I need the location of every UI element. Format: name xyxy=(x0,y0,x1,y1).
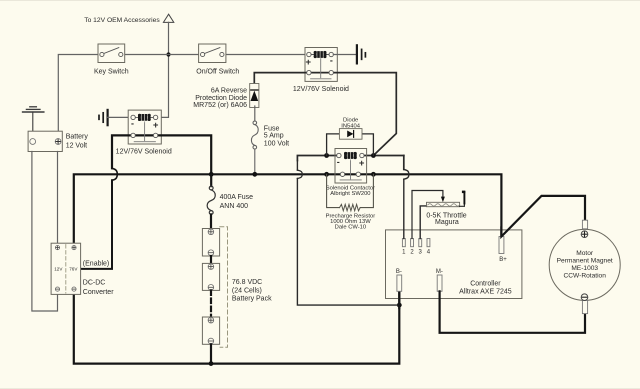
potentiometer RV1 0-5K throttle xyxy=(426,202,466,226)
wire: dashed series link cell2-cell3 xyxy=(210,290,212,317)
svg-text:-: - xyxy=(337,157,340,167)
svg-text:12V: 12V xyxy=(54,267,63,272)
svg-text:M-: M- xyxy=(436,269,443,275)
controller U1 Alltrax AXE 7245 xyxy=(386,230,522,299)
wire: B+ to motor + (diagonal, over, down) xyxy=(501,196,585,237)
svg-text:400A Fuse: 400A Fuse xyxy=(220,194,254,201)
battery pack cell 1 xyxy=(202,229,219,257)
wire: key switch to on/off switch xyxy=(125,54,199,56)
diode D2 IN5404 freewheel xyxy=(327,118,374,156)
ground right of top solenoid xyxy=(333,54,357,56)
DC-DC converter U2 xyxy=(51,243,114,296)
svg-text:12 Volt: 12 Volt xyxy=(66,142,87,149)
diode D1 6A reverse protection xyxy=(193,84,259,110)
node: B- / coil return junction xyxy=(397,303,402,308)
net symbol triangle xyxy=(163,14,173,22)
svg-text:76.8 VDC: 76.8 VDC xyxy=(232,279,262,286)
svg-text:-: - xyxy=(330,56,333,66)
svg-text:+: + xyxy=(359,158,365,169)
svg-text:+: + xyxy=(306,57,312,68)
svg-text:Converter: Converter xyxy=(83,289,114,296)
svg-text:Key Switch: Key Switch xyxy=(94,69,129,76)
wire: on/off switch to 12V/76V top solenoid coil xyxy=(226,54,309,56)
battery pack dashed bracket xyxy=(220,227,228,348)
svg-text:CCW-Rotation: CCW-Rotation xyxy=(564,272,607,279)
wire: contactor coil - return down to B- node xyxy=(296,161,298,171)
svg-text:Battery Pack: Battery Pack xyxy=(232,295,272,302)
node: bus/5A fuse junction xyxy=(252,172,257,177)
svg-text:Permanent Magnet: Permanent Magnet xyxy=(557,257,613,264)
svg-text:6A Reverse: 6A Reverse xyxy=(211,88,247,95)
wire: coil row to controller pin 1 (with hop over bus) xyxy=(403,156,405,170)
wire: throttle high end with grip bar xyxy=(460,203,465,206)
node: battery pack / bottom bus xyxy=(209,361,214,366)
wire: 12V battery + up to key switch, y54.5 xyxy=(58,55,98,132)
svg-text:B-: B- xyxy=(396,269,402,275)
wire: diode to 5A fuse xyxy=(254,106,256,121)
node: bus/400A fuse junction xyxy=(209,172,214,177)
wire: bottom negative bus y363.6 xyxy=(74,291,400,363)
svg-text:100 Volt: 100 Volt xyxy=(264,141,289,148)
wire: pin 3 to throttle low end xyxy=(420,206,426,239)
svg-text:(24 Cells): (24 Cells) xyxy=(232,287,262,294)
svg-text:Magura: Magura xyxy=(435,219,459,226)
svg-text:On/Off Switch: On/Off Switch xyxy=(196,69,239,76)
svg-text:IN5404: IN5404 xyxy=(341,124,360,130)
svg-text:Alltrax AXE 7245: Alltrax AXE 7245 xyxy=(459,288,512,295)
battery B1 12 Volt xyxy=(28,131,88,151)
battery pack cell 3 xyxy=(202,317,219,344)
wire: cell3 to bottom bus xyxy=(210,344,212,363)
wire hop: enable wire over bus xyxy=(112,168,117,180)
solenoid K1 12V/76V (middle) xyxy=(112,110,211,172)
on/off switch S2 xyxy=(196,44,239,76)
battery pack cell 2 xyxy=(202,263,219,290)
wire: pin 2 to throttle wiper (arrow) xyxy=(412,191,443,239)
ground above 12V battery xyxy=(23,107,44,131)
wire hop: coil return over bus xyxy=(297,170,302,178)
svg-text:Motor: Motor xyxy=(576,250,594,257)
wire: battery - down, over to DC-DC 12V - xyxy=(32,152,58,312)
fuse F1 5 Amp 100 Volt xyxy=(251,121,258,174)
wire: M- down, right, up to motor - xyxy=(440,291,585,333)
wire: cell1 to cell2 xyxy=(210,256,212,263)
node: bus/contactor right junction xyxy=(371,172,376,177)
svg-text:Controller: Controller xyxy=(470,281,501,288)
ground left of 12V/76V solenoid xyxy=(99,110,108,125)
svg-text:5 Amp: 5 Amp xyxy=(264,133,284,140)
svg-text:Dale CW-10: Dale CW-10 xyxy=(335,225,366,231)
fuse F2 400A ANN 400 xyxy=(207,186,215,214)
wire: enable wire continues to DC-DC xyxy=(81,180,112,269)
node: coil row / diode left xyxy=(324,153,329,158)
svg-text:To 12V OEM Accessories: To 12V OEM Accessories xyxy=(84,17,160,24)
wire: main positive bus y174.3 xyxy=(74,174,502,243)
svg-text:Albright SW200: Albright SW200 xyxy=(330,191,370,197)
svg-text:Fuse: Fuse xyxy=(264,126,280,133)
svg-text:76V: 76V xyxy=(69,267,78,272)
svg-text:12V/76V Solenoid: 12V/76V Solenoid xyxy=(293,86,349,93)
terminal B+ xyxy=(499,237,504,254)
svg-text:B+: B+ xyxy=(499,257,507,263)
wire: accessories vertical x168.5 down to solenoid + xyxy=(156,22,169,117)
svg-text:Protection Diode: Protection Diode xyxy=(195,95,247,102)
svg-text:(Enable): (Enable) xyxy=(83,261,109,268)
wire: battery + down to DC-DC 12V + xyxy=(57,152,59,244)
node: bus/contactor left junction xyxy=(324,172,329,177)
wire: bus down to 400A fuse xyxy=(210,174,212,186)
svg-text:ANN 400: ANN 400 xyxy=(220,203,249,210)
svg-text:MR752 (or) 6A06: MR752 (or) 6A06 xyxy=(193,102,247,109)
wire: contactor coil row y155.5 xyxy=(297,156,339,161)
svg-text:DC-DC: DC-DC xyxy=(83,280,106,287)
svg-text:-: - xyxy=(131,119,134,129)
contactor K3 Albright SW200 xyxy=(326,149,375,197)
resistor R1 precharge xyxy=(326,174,376,230)
node: junction key/onoff bus and accessories wire xyxy=(166,52,170,56)
solenoid K2 12V/76V (top right) xyxy=(254,48,396,156)
motor M1 ME-1003 xyxy=(549,220,620,313)
wire: 400A fuse to battery pack xyxy=(210,214,212,228)
svg-text:ME-1003: ME-1003 xyxy=(571,265,598,272)
key switch S1 xyxy=(94,44,129,76)
wire: ground to middle solenoid coil - xyxy=(108,116,134,118)
svg-text:Battery: Battery xyxy=(66,133,89,140)
node: coil row / diode right xyxy=(371,153,376,158)
svg-text:+: + xyxy=(153,120,159,131)
wire: B- through controller box edge (overdraw) xyxy=(398,293,400,308)
svg-text:12V/76V Solenoid: 12V/76V Solenoid xyxy=(116,149,172,156)
